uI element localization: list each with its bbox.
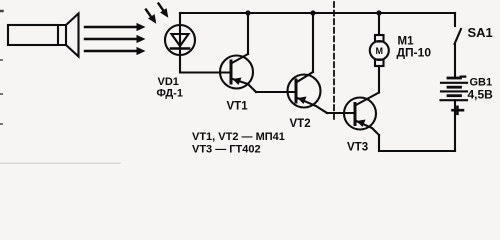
junction dot VT2 collector on rail (310, 10, 315, 15)
svg-text:М: М (376, 46, 384, 56)
light beam arrow 2 (85, 35, 146, 43)
svg-text:VT1, VT2 — МП41: VT1, VT2 — МП41 (192, 131, 285, 143)
photodiode VD1 (165, 25, 195, 55)
transistor VT1 (220, 54, 256, 92)
scan speck left edge mid (0, 59, 2, 61)
junction dot VT1 collector on rail (245, 10, 250, 15)
svg-text:ДП-10: ДП-10 (397, 46, 432, 60)
wire: rail to motor top (378, 13, 380, 35)
wire: rail right corner down to switch (454, 13, 456, 26)
scan smudge bottom edge (0, 162, 120, 164)
flashlight (8, 14, 79, 57)
battery GB1 (441, 78, 468, 100)
wire: VD1 bottom bend to VT1 base (180, 55, 231, 73)
dashed partition line (333, 2, 335, 119)
wire: top rail (180, 12, 455, 14)
light beam arrow 3 (85, 47, 146, 55)
wire: VT1 collector riser (247, 13, 249, 54)
transistor VT2 (288, 72, 328, 113)
wire: battery to bottom rail (454, 100, 456, 151)
switch SA1 lever (455, 29, 462, 44)
battery minus sign (461, 75, 465, 77)
wire: VT2 collector riser (312, 13, 314, 72)
svg-text:VD1: VD1 (158, 76, 179, 88)
motor M1 (370, 35, 389, 66)
svg-text:SA1: SA1 (468, 25, 493, 40)
wire: bottom rail (379, 150, 455, 152)
transistor VT3 (344, 93, 379, 136)
svg-text:VT3 — ГТ402: VT3 — ГТ402 (192, 144, 261, 156)
scan speck left edge low (0, 93, 2, 95)
svg-text:VT3: VT3 (347, 142, 368, 154)
wire: VT2 emitter to VT3 base (327, 112, 355, 114)
light beam arrow 1 (85, 23, 146, 31)
wire: VT3 emitter to bottom rail (378, 135, 380, 151)
svg-text:VT1: VT1 (227, 101, 249, 113)
scan speck left edge bottom (0, 123, 2, 125)
svg-text:VT2: VT2 (290, 118, 311, 130)
svg-text:ФД-1: ФД-1 (157, 88, 183, 100)
scan speck left edge top (0, 10, 3, 13)
wire: VD1 top to rail (179, 13, 181, 25)
svg-text:4,5В: 4,5В (468, 88, 494, 102)
wire: switch to battery (454, 44, 456, 78)
wire: VT1 emitter to VT2 base (256, 91, 296, 93)
wire: VT3 collector to motor (378, 66, 380, 93)
junction dot motor on rail (376, 10, 381, 15)
battery plus sign (453, 107, 464, 114)
photodiode light arrow upper (159, 4, 169, 18)
photodiode light arrow lower (146, 10, 156, 24)
